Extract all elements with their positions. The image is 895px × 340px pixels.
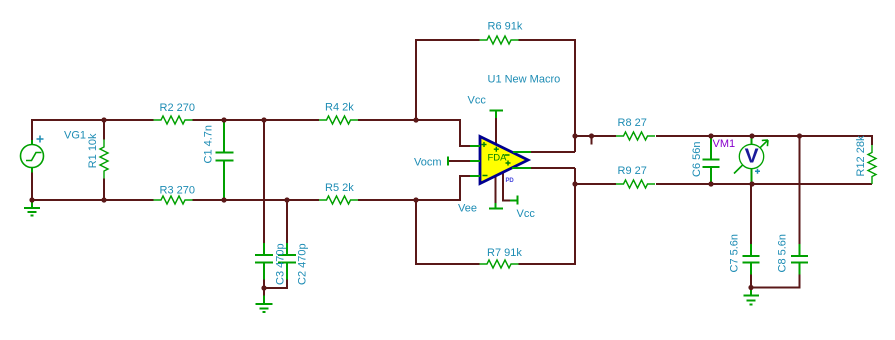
svg-text:C7 5.6n: C7 5.6n xyxy=(729,234,741,273)
svg-text:R9 27: R9 27 xyxy=(618,165,647,177)
svg-text:R7 91k: R7 91k xyxy=(487,247,522,259)
svg-text:R8 27: R8 27 xyxy=(618,117,647,129)
svg-text:Vocm: Vocm xyxy=(414,157,442,169)
svg-text:Vee: Vee xyxy=(458,203,477,215)
svg-text:R12 28k: R12 28k xyxy=(855,135,867,176)
svg-text:R4 2k: R4 2k xyxy=(325,102,354,114)
svg-text:R3 270: R3 270 xyxy=(160,185,195,197)
svg-text:R6 91k: R6 91k xyxy=(488,21,523,33)
svg-text:C3 470p: C3 470p xyxy=(275,243,287,285)
svg-text:VM1: VM1 xyxy=(713,138,736,150)
svg-text:C8 5.6n: C8 5.6n xyxy=(777,234,789,273)
svg-text:FDA: FDA xyxy=(488,153,508,164)
svg-text:Vcc: Vcc xyxy=(468,95,487,107)
svg-text:R5 2k: R5 2k xyxy=(325,182,354,194)
svg-text:C1 4.7n: C1 4.7n xyxy=(203,125,215,164)
svg-text:C6 56n: C6 56n xyxy=(691,142,703,177)
svg-text:V: V xyxy=(745,145,759,168)
svg-text:R2 270: R2 270 xyxy=(160,102,195,114)
svg-text:R1 10k: R1 10k xyxy=(87,133,99,168)
svg-text:VG1: VG1 xyxy=(64,130,86,142)
svg-text:C2 470p: C2 470p xyxy=(297,243,309,285)
svg-text:PD: PD xyxy=(506,178,515,184)
svg-text:Vcc: Vcc xyxy=(517,208,536,220)
svg-text:U1 New Macro: U1 New Macro xyxy=(488,74,561,86)
